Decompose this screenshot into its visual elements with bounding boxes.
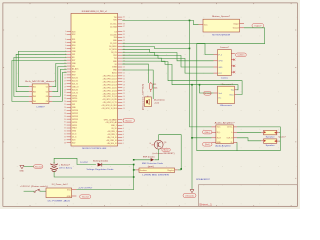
SP1 pin texts [0,0,1,1]
U1 value label [82,148,106,150]
wire switch to jack [40,190,46,192]
svg-text:GPIO12: GPIO12 [72,113,78,115]
svg-text:20: 20 [64,89,66,91]
net label Ground ultrasonic [204,91,212,95]
svg-text:CLK_IO: CLK_IO [72,92,79,94]
svg-text:33: 33 [123,40,125,42]
speaker SP2 body [264,139,277,143]
speakers designator [278,136,286,138]
Q1 value label [153,153,175,155]
motion sensor U3 body [203,19,240,32]
net label Buzzer on U1 pin [123,119,135,123]
svg-text:+3N_GPIO_10_SD3: +3N_GPIO_10_SD3 [101,108,116,110]
junction rail B [191,84,193,86]
svg-text:GPIO15: GPIO15 [72,119,78,121]
svg-text:17: 17 [123,87,125,89]
svg-text:+3N_GPIO_02_D4: +3N_GPIO_02_D4 [102,84,116,86]
svg-text:GND2: GND2 [72,128,77,130]
svg-text:IN4: IN4 [33,101,36,103]
wire to ultrasonic ground pin [200,85,214,93]
svg-text:IN_R: IN_R [217,138,222,140]
svg-text:+3N_GPIO_14_D5: +3N_GPIO_14_D5 [102,87,116,89]
wire U3 ground loop [197,28,265,151]
buzzer LS1 [145,96,152,107]
svg-text:L298N?: L298N? [36,107,45,109]
svg-text:10k: 10k [153,88,157,90]
svg-text:Speaker: Speaker [266,136,275,138]
wire diode to rail [134,159,151,161]
net label Ground left [34,165,43,169]
svg-text:Motor: Motor [163,149,168,152]
U5 designator [221,83,234,86]
svg-text:5: 5 [65,45,66,47]
svg-text:18: 18 [123,84,125,86]
wire amp out1 over speakers [237,127,280,151]
EMF diode D2 [151,158,154,161]
wire U1 to buzzer right [122,70,153,99]
battery BT1 [50,162,58,172]
wire Q1 source to diode [154,149,158,160]
svg-text:+3N_CMD_IO: +3N_CMD_IO [106,140,117,142]
svg-text:SD2: SD2 [72,34,75,36]
svg-text:10: 10 [123,108,125,110]
svg-text:GPIO: GPIO [218,61,223,63]
U2 value label [36,107,45,109]
camera U4 body [218,50,232,76]
U2 designator [25,80,57,83]
svg-text:GND: GND [218,67,223,69]
svg-text:8ch_MOTOR_driver?: 8ch_MOTOR_driver? [25,80,57,83]
svg-text:D5_SCK: D5_SCK [110,43,117,45]
SP1 stubs [261,131,279,134]
svg-text:3V3: 3V3 [72,104,75,106]
svg-text:3V3: 3V3 [72,54,75,56]
Q1 labels [149,142,167,145]
SP2 value label [266,145,275,147]
R1 labels [153,84,157,89]
svg-text:37: 37 [64,139,66,141]
wire diode to power rail [102,165,134,190]
svg-text:D3: D3 [115,31,117,33]
svg-text:Battery (Diode): Battery (Diode) [93,159,108,162]
svg-text:1: 1 [123,143,124,145]
svg-text:16: 16 [64,77,66,79]
svg-text:Echo: Echo [230,94,234,96]
svg-text:SD0_IO: SD0_IO [72,89,79,91]
U4 value label [221,77,229,80]
net label Camera [236,53,247,57]
svg-text:+3N_CLK_IO: +3N_CLK_IO [107,137,118,139]
DC jack J1 designator [52,183,69,186]
svg-text:Ground: Ground [35,166,42,168]
svg-text:D6_MISO: D6_MISO [109,46,117,48]
resistor R1 [149,82,152,92]
EMF diode value label [142,162,164,165]
svg-text:EMF (Diode): EMF (Diode) [143,156,155,158]
svg-text:MOTION SENSOR: MOTION SENSOR [212,34,230,36]
ground flag GND2 [190,190,194,193]
svg-text:Gnd: Gnd [218,93,221,95]
svg-text:+12V OUTPUT: +12V OUTPUT [78,188,93,190]
svg-text:24: 24 [123,67,125,69]
svg-text:Ground: Ground [233,28,239,30]
svg-text:3V3: 3V3 [114,37,117,39]
svg-text:OUT_L: OUT_L [227,127,233,129]
svg-text:Voltage Regulation Diode: Voltage Regulation Diode [87,168,115,171]
svg-text:23: 23 [64,98,66,100]
svg-text:Output: Output [233,22,239,25]
svg-text:GPIO0: GPIO0 [72,98,77,100]
SP2 stubs [261,140,279,143]
svg-text:TX2: TX2 [114,58,117,60]
wire amp return loop [237,142,280,150]
U5 pins [214,90,237,100]
wire M1 left to rail [134,169,136,171]
svg-text:GPIO3: GPIO3 [72,122,77,124]
U5 value label [220,104,234,107]
svg-text:38: 38 [64,142,66,144]
grid dots [17,17,298,205]
svg-text:7: 7 [123,125,124,127]
microcontroller U1 body [71,13,118,146]
U6 value label [215,145,231,148]
wire U1 to resistor [122,64,148,83]
D1 designator [93,159,108,162]
svg-text:4: 4 [123,134,124,136]
svg-text:6: 6 [123,128,124,130]
svg-text:SD2: SD2 [72,142,75,144]
J1 pin texts [67,190,72,198]
junction amp pin3 [191,137,193,139]
svg-text:3: 3 [65,39,66,41]
svg-text:35: 35 [123,34,125,36]
svg-text:D1_SCL: D1_SCL [110,24,116,26]
svg-text:+3N_GPIO_03_RX: +3N_GPIO_03_RX [102,99,117,101]
svg-text:32: 32 [64,125,66,127]
sheet border frame with zone ticks [3,3,297,206]
title block [198,185,297,206]
svg-text:21: 21 [64,92,66,94]
svg-text:14: 14 [123,96,125,98]
U3 pins [199,22,245,29]
M1 value label [142,175,169,177]
svg-text:2: 2 [65,34,66,36]
svg-text:DC_Power_Jack?: DC_Power_Jack? [52,183,69,186]
svg-text:+3N_RSV_1: +3N_RSV_1 [107,131,116,133]
svg-text:17: 17 [64,80,66,82]
svg-text:1: 1 [65,31,66,33]
svg-text:30: 30 [64,119,66,121]
EMF diode designator [143,156,155,158]
buzzer net name vertical [142,83,145,110]
net label Vol- [203,143,213,147]
svg-text:D1_m: D1_m [72,137,77,139]
svg-text:SPEAKERS?: SPEAKERS? [196,178,211,181]
svg-text:35: 35 [64,134,66,136]
wire GND1 to label [24,165,34,167]
rail to bottom ground [191,85,193,190]
U2 pins [29,87,52,104]
svg-text:IN1: IN1 [33,87,36,89]
wire U1 to ultrasonic echo [122,61,238,90]
junction M1 left [133,169,135,171]
svg-text:11: 11 [64,63,66,65]
svg-text:11: 11 [123,105,125,107]
svg-text:DC POWER JACK: DC POWER JACK [48,199,71,202]
svg-text:GND: GND [217,142,222,144]
DC jack J1 body [46,188,72,198]
svg-text:40: 40 [123,17,125,19]
speaker SP1 body [264,130,277,134]
svg-text:19: 19 [64,86,66,88]
Q1 gate stub [152,144,155,146]
power switch SW1 [34,189,40,193]
svg-text:MICROCONTROLLER: MICROCONTROLLER [82,148,106,150]
svg-text:TX0: TX0 [114,17,117,19]
motor M1 designator [148,165,154,168]
svg-text:(part): (part) [148,165,154,168]
net label Output [252,23,264,27]
svg-text:GPIO4: GPIO4 [72,95,77,97]
ultrasonic U5 body [218,86,235,103]
wire U1 to U3 VCC [122,20,198,24]
svg-text:25: 25 [64,104,66,106]
svg-text:Vcc: Vcc [218,97,221,99]
wire battery top to diode [54,158,96,164]
svg-text:D0_m: D0_m [72,134,77,136]
ground flag GND1 [20,165,25,172]
svg-text:6: 6 [65,48,66,50]
svg-text:GPIO14: GPIO14 [72,110,78,112]
M1 pin stubs [136,169,178,171]
svg-text:Ultrasonic?: Ultrasonic? [221,83,234,86]
svg-text:2: 2 [123,140,124,142]
svg-text:8: 8 [123,122,124,124]
junction on motion wire [189,20,191,22]
svg-text:O4: O4 [46,101,48,103]
svg-text:D4_LED: D4_LED [110,34,117,36]
svg-text:+3N_SD0_IO: +3N_SD0_IO [107,143,118,145]
U4 pins [214,54,235,75]
svg-text:SD2_IO: SD2_IO [72,81,79,83]
diode D1 [98,163,102,167]
svg-text:37: 37 [123,26,125,28]
svg-text:SD1_IO: SD1_IO [72,83,79,85]
svg-text:+12V DC (Power switch): +12V DC (Power switch) [20,185,48,188]
audio amplifier U6 body [216,125,234,144]
svg-text:+12v): +12v) [154,103,159,105]
svg-text:4: 4 [65,42,66,44]
svg-text:+3N_GPIO_15_D8: +3N_GPIO_15_D8 [102,96,116,98]
svg-text:GND_2: GND_2 [111,125,117,127]
wire battery bottom to rail [54,171,134,177]
svg-text:12: 12 [123,102,125,104]
svg-text:Cameras?: Cameras? [220,46,230,49]
svg-text:38: 38 [123,24,125,26]
svg-text:GPIO13: GPIO13 [72,116,78,118]
BT1 designator [59,164,71,167]
net label Ground bottom [183,194,196,198]
transistor Q1 [154,140,163,149]
svg-text:(n-channel MOSFET): (n-channel MOSFET) [153,153,175,155]
svg-text:+3N_GPIO_09_SD2: +3N_GPIO_09_SD2 [101,105,116,107]
svg-text:(Vol+): (Vol+) [205,132,211,134]
svg-text:19: 19 [123,81,125,83]
svg-text:(Ground): (Ground) [185,195,193,197]
svg-text:28: 28 [64,113,66,115]
svg-text:34: 34 [64,131,66,133]
power switch label [20,185,48,188]
svg-text:RX2: RX2 [113,55,116,57]
svg-text:D7_MOSI: D7_MOSI [109,49,117,51]
svg-text:IN3: IN3 [33,96,36,98]
svg-text:Audio_Amplifier?: Audio_Amplifier? [215,121,236,124]
svg-text:+3N_GPIO_05_D1: +3N_GPIO_05_D1 [102,76,116,78]
svg-text:+3N_GPIO_A0: +3N_GPIO_A0 [105,121,116,124]
wire SP right pins to rail [279,133,280,142]
svg-text:34: 34 [123,37,125,39]
svg-text:+3N_GPIO_04_D2: +3N_GPIO_04_D2 [102,79,116,81]
junction battery rail [133,176,135,178]
svg-text:Trig: Trig [231,90,234,92]
junction diode rail [133,159,135,161]
svg-text:29: 29 [64,116,66,118]
svg-text:Sheet_1: Sheet_1 [199,204,213,207]
svg-text:IP_0: IP_0 [218,54,222,56]
svg-text:Regular: Regular [168,170,175,172]
svg-text:VU_5V: VU_5V [111,128,117,130]
svg-text:3V3b: 3V3b [72,131,76,133]
wire switch left [24,190,35,192]
svg-text:5V OUTPUT: 5V OUTPUT [80,162,89,164]
rail to amplifier VCC [190,20,212,127]
U3 designator [212,15,231,18]
wire J1 VCC to power rail [76,189,133,191]
svg-text:26: 26 [64,107,66,109]
svg-text:16: 16 [123,90,125,92]
svg-text:GPIO1: GPIO1 [72,125,77,127]
svg-text:O3: O3 [46,96,48,98]
U4 no-connect marks [233,59,235,74]
svg-text:+ Battery?: + Battery? [59,164,71,167]
svg-text:GND: GND [20,171,25,173]
svg-text:SD3: SD3 [72,140,75,142]
svg-text:(Vol-): (Vol-) [205,144,210,146]
svg-text:IN2: IN2 [33,92,36,94]
audio amplifier U6 designator [215,121,236,124]
U4 designator [220,46,230,49]
svg-text:Ground: Ground [204,93,211,95]
U1 designator [82,11,108,13]
net label Ground jack [80,195,91,199]
svg-text:Buzzer: Buzzer [126,120,133,122]
svg-text:20: 20 [123,78,125,80]
SP1 value label [266,136,275,138]
svg-text:Ground: Ground [82,196,89,198]
net label Motor [162,148,171,151]
svg-text:33: 33 [64,128,66,130]
svg-text:Speakers?: Speakers? [278,136,286,138]
svg-text:(Buzzer/piezo: (Buzzer/piezo [154,98,165,101]
svg-text:(Buzzer_GPIO): (Buzzer_GPIO) [142,83,145,110]
junction power rail top [133,164,135,166]
svg-text:12V DC Battery: 12V DC Battery [59,167,72,170]
svg-text:A0_ADC: A0_ADC [72,68,79,71]
svg-text:36: 36 [123,31,125,33]
+12V output label [78,188,93,190]
svg-text:EMF Protection Diode: EMF Protection Diode [142,162,164,165]
svg-text:ADC0: ADC0 [112,72,117,75]
svg-text:SD3_IO: SD3_IO [72,78,79,80]
svg-text:L298N MID DRIVER: L298N MID DRIVER [142,175,169,177]
svg-text:SD1: SD1 [72,39,75,41]
svg-text:36: 36 [64,136,66,138]
svg-text:Camera: Camera [221,77,229,80]
svg-text:21: 21 [123,75,125,77]
svg-text:D8_CS: D8_CS [111,52,117,54]
svg-text:+3N_GPIO_00_D3: +3N_GPIO_00_D3 [102,81,116,83]
wire Q1 drain loop [159,135,182,170]
U1 right pins [101,17,125,145]
net label Vol+ [203,130,213,134]
svg-text:RX0: RX0 [113,20,116,22]
wire amp to SP2 [237,138,261,141]
svg-text:GPIO_16_WAKE: GPIO_16_WAKE [104,118,118,121]
svg-text:RST: RST [72,60,75,62]
svg-text:3: 3 [123,137,124,139]
svg-text:+3N_GPIO_12_D6: +3N_GPIO_12_D6 [102,90,116,92]
speakers net note [196,178,211,181]
svg-text:+3N_GPIO_01_TX: +3N_GPIO_01_TX [102,102,117,104]
svg-text:Motion_Sensor?: Motion_Sensor? [212,15,231,18]
U3 value label [212,34,230,36]
wire bundle U2 to U1 [12,51,67,101]
svg-text:Output?: Output? [254,24,262,27]
M1 pin texts [140,170,174,172]
D1 value label [87,168,115,171]
svg-text:31: 31 [64,122,66,124]
wire M1 right to rail [178,169,181,171]
svg-text:GND: GND [67,196,72,198]
svg-text:Audio Amplifier: Audio Amplifier [215,145,231,148]
wire U1 to ultrasonic trig [122,58,242,94]
junction ultrasonic branch [199,84,201,86]
svg-text:Gearbox: Gearbox [140,170,147,172]
svg-text:OUT_R: OUT_R [227,138,234,140]
svg-text:CMD_IO: CMD_IO [72,86,79,88]
wire amp to SP1 [237,131,261,133]
junction motor right [180,168,182,170]
svg-text:Speaker: Speaker [266,145,275,147]
svg-text:O1: O1 [46,87,48,89]
svg-text:27: 27 [64,110,66,112]
svg-text:SD3: SD3 [72,31,75,33]
motor M1 body [139,168,175,172]
U6 pins [212,127,238,144]
svg-text:22: 22 [123,73,125,75]
svg-text:Ultrasonic: Ultrasonic [220,104,234,107]
svg-text:5: 5 [123,131,124,133]
J1 pin stubs [72,190,77,196]
U1 left pins [64,31,79,144]
motor-driver control U2 body [32,84,49,104]
svg-text:Camera: Camera [237,55,245,57]
junction camera branch [189,48,191,50]
svg-text:9: 9 [65,57,66,59]
svg-text:15: 15 [64,75,66,77]
svg-text:15: 15 [123,93,125,95]
title block sheet name [199,204,213,207]
